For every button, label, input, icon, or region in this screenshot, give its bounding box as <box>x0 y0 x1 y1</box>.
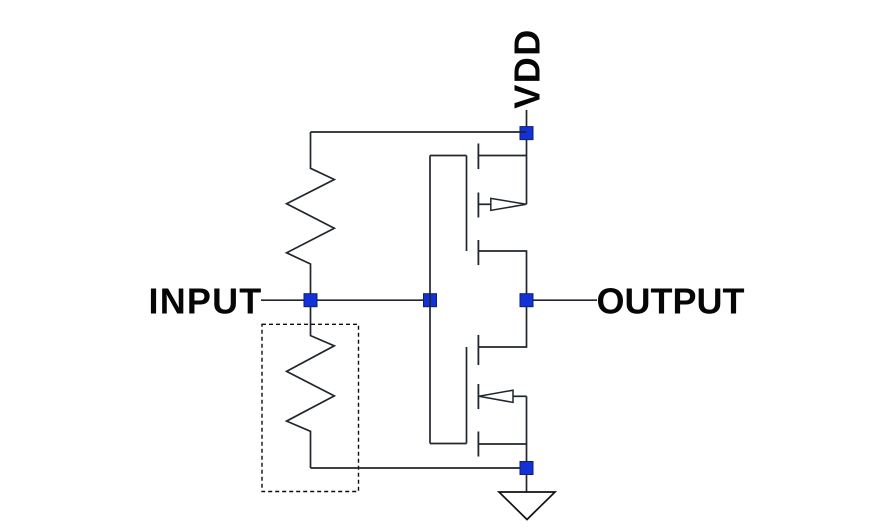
node ground <box>520 462 533 475</box>
wire top rail <box>311 131 527 133</box>
transistor NMOS gate bar <box>466 347 468 444</box>
wire input lead <box>261 299 304 301</box>
wire NMOS bulk stub <box>513 395 527 397</box>
wire input node to gate node <box>317 299 424 301</box>
wire ground stub <box>526 475 528 493</box>
wire output lead <box>533 299 597 301</box>
wire bottom rail <box>311 467 521 469</box>
dashed enclosure box <box>262 324 359 491</box>
wire gate top stub <box>430 155 467 157</box>
wire gate trunk <box>429 156 431 444</box>
node gate <box>424 294 437 307</box>
wire PMOS drain <box>478 251 526 294</box>
wire VDD rail segment <box>526 140 528 205</box>
wire NMOS bulk to source rail <box>526 396 528 444</box>
transistor PMOS channel dashes <box>477 144 479 266</box>
svg-text:VDD: VDD <box>507 28 548 109</box>
resistor R1 <box>287 132 335 294</box>
ground symbol <box>499 492 555 520</box>
node input <box>304 294 317 307</box>
transistor PMOS bulk arrow <box>491 198 527 210</box>
wire VDD stub <box>526 110 528 127</box>
node output <box>520 294 533 307</box>
wire PMOS bulk stub <box>478 203 490 205</box>
wire NMOS drain <box>478 307 526 347</box>
resistor R2 <box>287 307 335 468</box>
wire PMOS source <box>478 155 526 157</box>
transistor PMOS gate bar <box>466 156 468 252</box>
svg-text:INPUT: INPUT <box>149 281 263 322</box>
transistor NMOS channel dashes <box>477 335 479 457</box>
transistor NMOS bulk arrow <box>479 390 513 402</box>
wire NMOS source <box>478 444 526 462</box>
wire gate bottom stub <box>430 443 467 445</box>
node VDD <box>520 127 533 140</box>
svg-text:OUTPUT: OUTPUT <box>597 281 745 322</box>
